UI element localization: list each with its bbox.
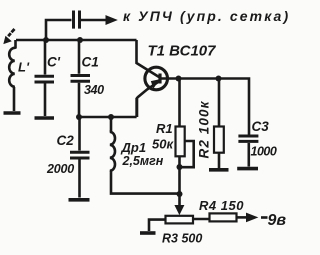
node E [176,76,182,82]
transistor T1 base bar [158,74,161,84]
terminal R3 [140,231,156,235]
resistor R2 [218,79,221,127]
arrow out [247,213,258,221]
wire lower rail [79,116,137,119]
wire R3 left [149,220,166,231]
R1 wiper tap [181,141,194,167]
wire emitter rail corner [135,98,138,117]
inductor L' [9,40,15,111]
inductor Dr1 [110,117,179,194]
node B [77,37,83,43]
wiper arrow to R3 [178,194,181,207]
svg-text:2,5мгн: 2,5мгн [122,154,164,168]
svg-text:R3 500: R3 500 [162,232,202,246]
terminal C2 [69,198,90,202]
node A [43,37,49,43]
wire R3 to R4 [193,218,210,221]
wire coupling riser [46,20,72,40]
input arrow antenna [12,29,15,32]
minus dash [261,216,268,219]
potentiometer R3 [166,216,194,224]
transistor T1 emitter [137,81,160,117]
terminal C' [35,116,55,120]
svg-text:L': L' [18,60,30,75]
capacitor C2 [78,117,81,198]
capacitor coupling [74,11,80,29]
transistor T1 base lead [137,40,160,77]
capacitor C' [44,40,47,116]
svg-text:50к: 50к [152,137,174,152]
svg-text:Др1: Др1 [121,140,147,155]
resistor R4 [210,213,237,221]
wire main top [16,39,137,42]
terminal R2 [209,168,229,172]
resistor R1 [178,79,181,127]
svg-text:С2: С2 [57,133,75,148]
svg-text:к УПЧ (упр. сетка): к УПЧ (упр. сетка) [123,8,290,24]
wire coupling to arrow [81,19,107,22]
terminal C3 [237,167,258,171]
svg-text:R1: R1 [156,121,173,136]
wire collector rail [161,79,250,135]
svg-text:R4 150: R4 150 [199,198,244,213]
svg-text:R2 100к: R2 100к [197,100,212,158]
wire R4 out [237,216,248,219]
arrow to UPCh [106,16,117,24]
svg-text:С3: С3 [252,119,270,134]
svg-text:2000: 2000 [46,162,74,176]
svg-text:9в: 9в [268,212,287,229]
svg-text:Т1 ВС107: Т1 ВС107 [148,43,217,60]
capacitor C1 [78,40,81,117]
capacitor C3 [238,136,258,141]
node C [76,114,82,120]
svg-text:С1: С1 [82,55,99,70]
node D [108,114,114,120]
node H [177,191,183,197]
svg-text:1000: 1000 [251,145,277,159]
terminal L' [4,111,21,115]
svg-text:С': С' [47,55,61,70]
svg-text:340: 340 [84,83,104,97]
node G [177,164,183,170]
transistor T1 circle [145,67,168,90]
wire R1 junction down [178,167,181,194]
node F [216,76,222,82]
